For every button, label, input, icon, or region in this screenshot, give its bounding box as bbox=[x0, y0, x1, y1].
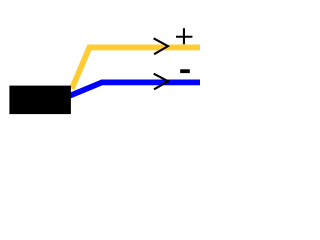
black box component bbox=[9, 86, 71, 115]
wire positive (yellow) bbox=[72, 47, 200, 88]
plus label bbox=[176, 28, 192, 44]
minus label bbox=[180, 69, 190, 73]
arrow on negative wire bbox=[154, 74, 169, 90]
wire negative (blue) bbox=[69, 82, 200, 96]
arrow on positive wire bbox=[154, 38, 168, 54]
